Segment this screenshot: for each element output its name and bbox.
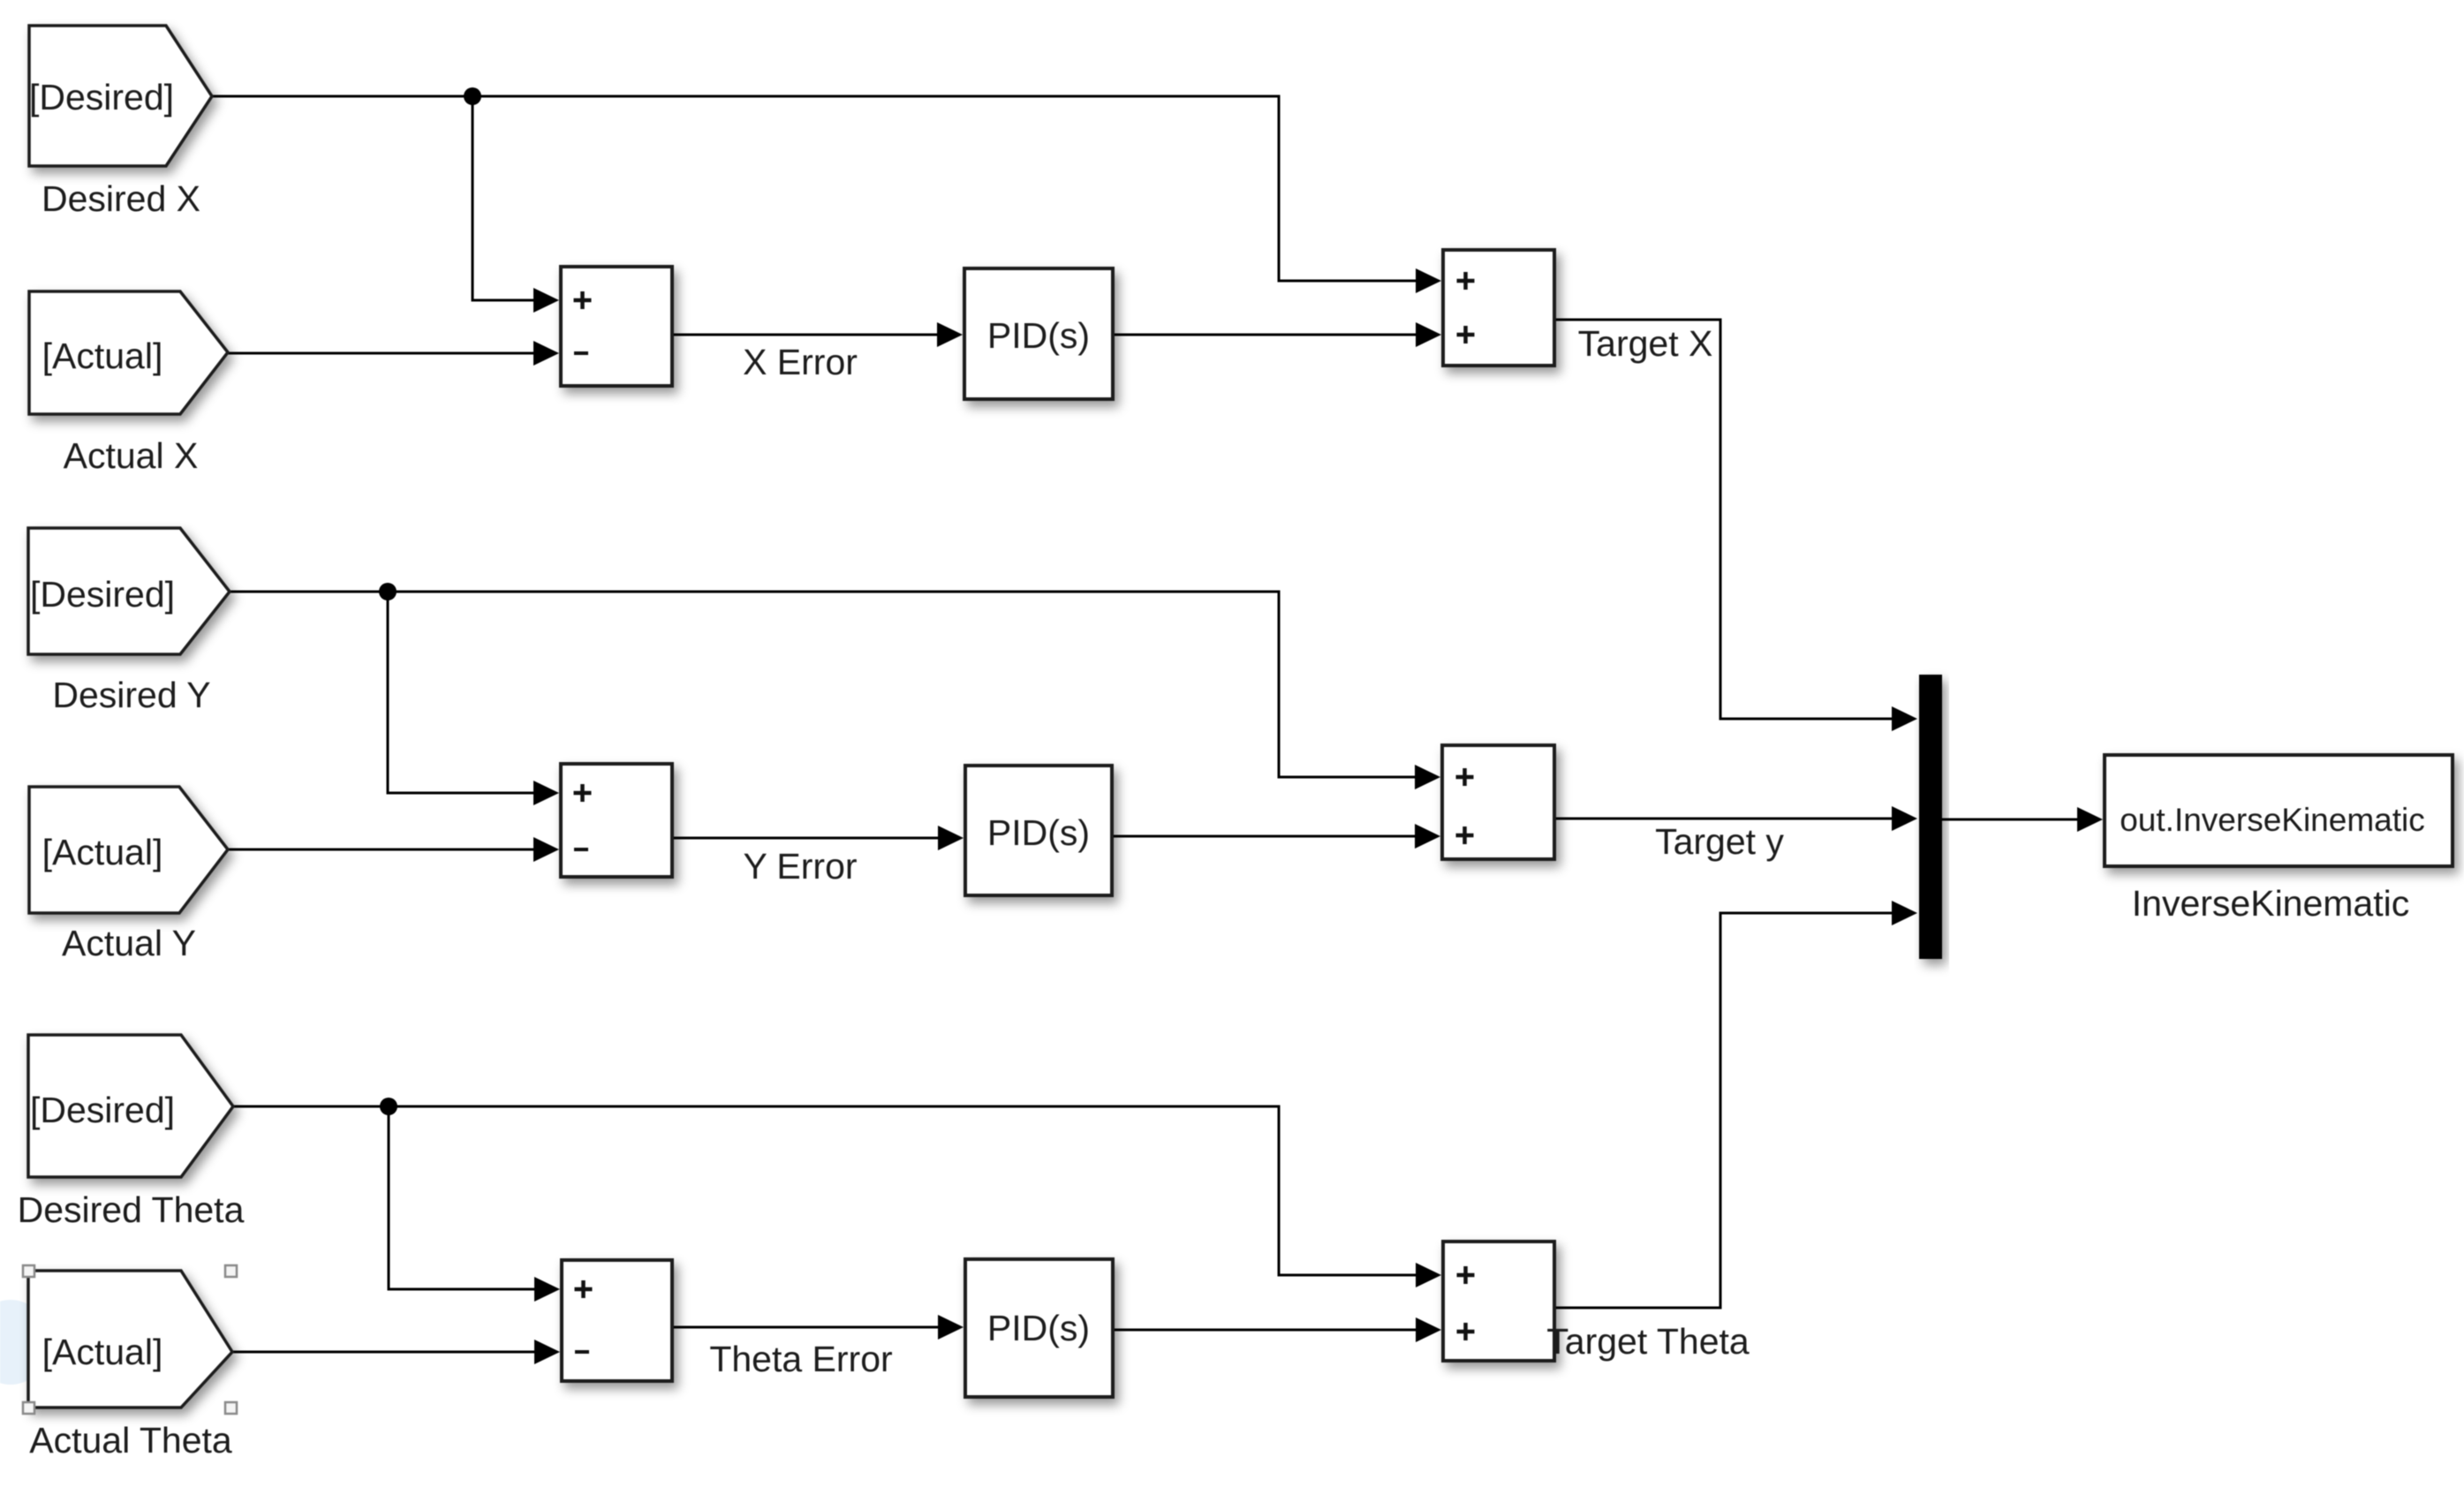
sum block Sum5 [562,1260,672,1381]
wire arrow into Sum5 in2 [534,1340,560,1364]
svg-text:Y Error: Y Error [743,846,857,887]
svg-text:PID(s): PID(s) [987,315,1090,356]
selection handle bottom-left [23,1402,34,1414]
from tag Desired X [29,26,212,166]
PID block PID3 [965,1259,1113,1397]
wire Desired X to corner [212,96,1418,281]
wire branch Desired X down to Sum1 in1 [472,96,535,300]
wire Actual X to Sum1 in2 [228,352,535,355]
svg-text:Target X: Target X [1578,323,1713,364]
wire PID2 out to Sum4 in2 [1112,835,1417,838]
svg-text:Desired Theta: Desired Theta [18,1189,245,1230]
wire Desired Theta to corner [233,1106,1418,1275]
Sum4 plus sign 1 [1456,768,1474,786]
Sum5 plus sign [575,1280,593,1298]
wire arrow into Sum1 in2 [533,341,559,366]
wire branch Desired Y down to Sum3 in1 [388,592,535,793]
wire PID1 out to Sum2 in2 [1113,334,1418,336]
Sum4 plus sign 2 [1456,827,1474,844]
wire Sum3 out to PID2 (Y Error) [672,837,941,840]
from tag Actual Y [29,787,228,913]
svg-text:[Actual]: [Actual] [42,832,163,872]
wire Sum6 out (Target Theta) to mux in3 [1554,913,1895,1308]
from tag Actual X [29,291,228,414]
from tag Actual Theta [28,1271,232,1408]
Sum3 minus sign [574,848,588,851]
wire mux out to output block [1942,819,2080,821]
wire arrow into PID1 [937,322,963,347]
from tag Desired Theta [28,1035,233,1177]
wire arrow into Sum2 in2 [1416,322,1441,347]
selection glow Actual Theta [0,1300,49,1385]
svg-text:PID(s): PID(s) [987,812,1090,853]
wire Desired Y to corner [230,592,1417,777]
svg-text:Actual X: Actual X [64,435,199,476]
output block out.InverseKinematic [2105,755,2453,866]
wire arrow into Sum1 in1 [533,288,559,313]
wire arrow into output block [2077,807,2103,832]
Sum2 plus sign 2 [1457,326,1475,343]
svg-text:InverseKinematic: InverseKinematic [2132,883,2409,924]
svg-text:Target y: Target y [1655,821,1784,862]
sum block Sum2 [1443,250,1554,366]
PID block PID1 [964,268,1113,399]
Sum3 plus sign [574,784,592,802]
wire PID3 out to Sum6 in2 [1113,1329,1418,1332]
wire arrow into mux in2 [1892,806,1917,831]
node junction Desired Theta [380,1098,397,1115]
wire Sum4 out (Target y) to mux in2 [1554,818,1895,820]
wire Actual Theta to Sum5 in2 [232,1351,536,1354]
wire arrow into Sum3 in1 [533,781,559,805]
Sum2 plus sign 1 [1457,272,1475,290]
sum block Sum6 [1443,1242,1554,1361]
wire Sum5 out to PID3 (Theta Error) [672,1326,941,1329]
Sum6 plus sign 2 [1457,1323,1475,1340]
svg-text:out.InverseKinematic: out.InverseKinematic [2120,802,2425,838]
wire arrow into Sum6 in1 [1416,1263,1441,1287]
wire arrow into mux in3 [1892,901,1917,925]
wire Actual Y to Sum3 in2 [228,849,535,851]
wire arrow into Sum4 in2 [1415,824,1440,849]
wire arrow into Sum3 in2 [533,837,559,862]
node junction Desired X [464,87,481,105]
svg-text:Desired Y: Desired Y [52,675,210,715]
selection handle top-left [23,1265,34,1277]
wire arrow into PID2 [938,826,964,850]
svg-text:[Actual]: [Actual] [42,336,163,376]
svg-text:Actual Theta: Actual Theta [29,1420,232,1461]
wire arrow into mux in1 [1892,706,1917,731]
selection handle bottom-right [225,1402,237,1414]
svg-text:PID(s): PID(s) [987,1308,1090,1348]
wire arrow into Sum6 in2 [1416,1317,1441,1342]
wire arrow into Sum5 in1 [534,1277,560,1302]
svg-text:Target Theta: Target Theta [1546,1321,1750,1362]
svg-text:[Desired]: [Desired] [30,1090,175,1130]
svg-text:Theta Error: Theta Error [709,1339,892,1379]
mux block [1919,675,1942,959]
svg-text:Desired X: Desired X [42,178,200,219]
wire Sum2 out (Target X) to mux in1 [1554,320,1895,719]
wire branch Desired Theta down to Sum5 in1 [389,1106,536,1289]
svg-text:[Actual]: [Actual] [42,1332,163,1372]
wire Sum1 out to PID1 (X Error) [672,334,940,336]
sum block Sum3 [561,764,672,877]
wire arrow into Sum4 in1 [1415,765,1440,789]
svg-text:[Desired]: [Desired] [30,574,175,615]
svg-text:[Desired]: [Desired] [29,77,174,117]
svg-text:Actual Y: Actual Y [62,923,196,963]
sum block Sum1 [561,267,672,386]
node junction Desired Y [379,583,397,600]
Sum6 plus sign 1 [1457,1266,1475,1284]
Sum1 plus sign [574,291,592,309]
sum block Sum4 [1442,745,1554,859]
Sum5 minus sign [575,1350,589,1354]
wire arrow into PID3 [938,1315,964,1340]
svg-text:X Error: X Error [743,342,858,382]
wire arrow into Sum2 in1 [1416,268,1441,293]
PID block PID2 [965,766,1112,895]
Sum1 minus sign [574,351,588,355]
selection handle top-right [225,1265,237,1277]
from tag Desired Y [28,528,230,654]
